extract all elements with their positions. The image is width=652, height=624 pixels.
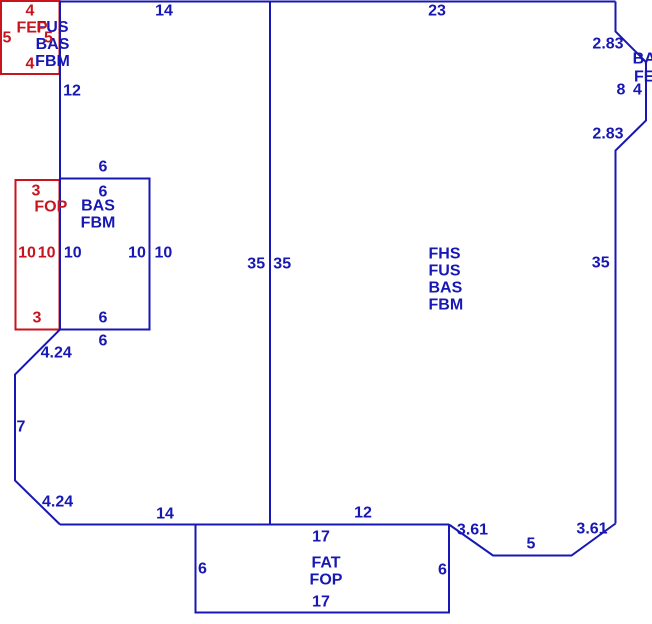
- dim 6 ext above interior rect: [99, 158, 108, 175]
- dim 35 party wall left: [247, 255, 265, 272]
- label FEP (red): [16, 19, 47, 36]
- label right unit areas FHS/FUS/BAS/FBM: [429, 245, 464, 314]
- wire bottom-right notch (3.61,5,3.61): [449, 524, 616, 556]
- dim 35 party wall right: [273, 255, 291, 272]
- wire bottom wall (14 + 12): [60, 524, 449, 526]
- dim 10 int left of interior rect: [64, 244, 82, 261]
- label FAT/FOP patio: [310, 555, 343, 590]
- porch FEP outline (red rect, top-left): [1, 1, 60, 74]
- dim 5 FEP right (red): [44, 29, 53, 46]
- dim 6 int above bottom of interior rect: [99, 310, 108, 327]
- dim 14 top: [155, 2, 173, 19]
- dim 6 int below top of interior rect: [99, 183, 108, 200]
- dim 10 FOP right (red): [38, 245, 56, 262]
- node BAS/FBM 6x10 interior rect: [60, 179, 150, 330]
- dim 6 ext below bottom of interior rect: [99, 332, 108, 349]
- dim 12 left wall: [63, 82, 81, 99]
- dim 5 bottom notch: [527, 535, 536, 552]
- dim 35 right wall: [592, 254, 610, 271]
- dim 4.24 lower diagonal: [42, 494, 73, 511]
- label FOP (red): [34, 198, 67, 215]
- label left unit areas FUS/BAS/FBM: [35, 19, 70, 71]
- label BAS/FBM interior rect: [81, 197, 116, 232]
- dim 3.61 bottom-right left diagonal: [457, 521, 488, 538]
- dim 6 patio left: [198, 560, 207, 577]
- dim 14 bottom: [156, 505, 174, 522]
- dim 4 FEP top (red): [26, 2, 35, 19]
- dim 3 FOP top (red): [32, 182, 41, 199]
- dim 8 bay: [617, 82, 626, 99]
- wire top wall (14 + 23): [60, 1, 616, 3]
- wire left wall + lower-left diagonals: [15, 2, 60, 525]
- dim 17 patio top: [312, 529, 330, 546]
- dim 23 top: [428, 2, 446, 19]
- dim 7 left wall lower: [17, 418, 26, 435]
- dim 2.83 bay bottom diagonal: [592, 125, 623, 142]
- dim 10 int right of interior rect: [128, 244, 146, 261]
- dim 4 bay: [633, 82, 642, 99]
- dim 2.83 bay top diagonal: [592, 36, 623, 53]
- dim 4.24 upper diagonal: [41, 344, 72, 361]
- dim 5 FEP left (red): [3, 29, 12, 46]
- porch FOP outline (red rect, mid-left): [16, 180, 60, 330]
- dim 3 FOP bottom (red): [33, 309, 42, 326]
- dim 10 ext right of interior rect: [154, 244, 172, 261]
- label bay BAS/FEP (clipped at edge): [633, 51, 652, 86]
- dim 12 bottom: [354, 504, 372, 521]
- dim 10 FOP left (red): [18, 245, 36, 262]
- dim 6 patio right: [438, 561, 447, 578]
- node FAT/FOP patio rect: [196, 525, 450, 613]
- wire party wall (35/35): [269, 2, 271, 525]
- dim 3.61 bottom-right right diagonal: [576, 520, 607, 537]
- dim 4 FEP bottom (red): [26, 55, 35, 72]
- dim 17 patio bottom: [312, 594, 330, 611]
- wire right wall with bay bump: [616, 2, 647, 524]
